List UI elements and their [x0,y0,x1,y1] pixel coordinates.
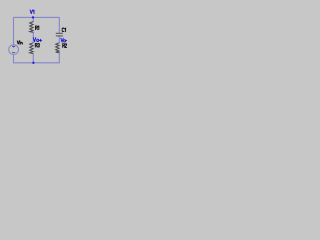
wire top rail V1 net [14,17,60,44]
wire branch2 middle segment node Vo- [58,36,60,43]
resistor R2 [56,43,60,53]
wire branch1 middle segment node Vo+ [32,32,34,42]
label R1 [36,26,39,30]
node Vo- label [61,38,67,42]
resistor R1 [30,22,34,33]
wire branch1 top stub [32,17,34,21]
node Vo+ label [33,38,41,42]
junction dot top node V1 [32,16,34,18]
label R2 [63,44,67,48]
node V1 label [30,10,34,14]
wire branch1 bottom stub [32,54,34,63]
capacitor C1 [56,33,63,36]
label R3 [35,43,39,47]
junction dot bottom node [32,62,34,64]
wire bottom rail ground return [14,53,60,63]
background [0,0,95,74]
voltage source Vin [9,45,19,55]
resistor R3 [30,43,34,54]
label C1 [62,28,66,32]
label Vin (source name) [17,41,22,44]
